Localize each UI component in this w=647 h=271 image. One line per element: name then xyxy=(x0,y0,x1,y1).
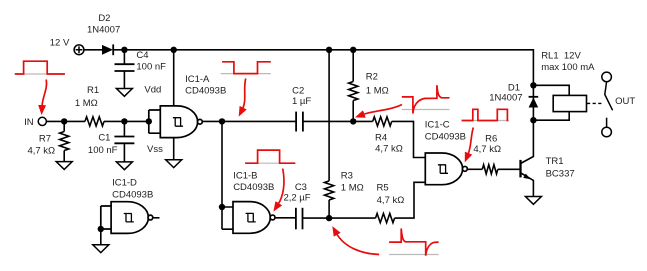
svg-text:1 MΩ: 1 MΩ xyxy=(75,98,98,109)
svg-text:1N4007: 1N4007 xyxy=(87,25,120,36)
resistor R5 xyxy=(376,214,395,223)
annotation arrow to node A xyxy=(363,105,402,115)
resistor R4 xyxy=(373,117,392,126)
svg-text:R7: R7 xyxy=(39,134,51,145)
switch contact top xyxy=(602,72,612,82)
svg-text:C4: C4 xyxy=(136,50,148,61)
ground (R7) xyxy=(56,162,72,170)
NAND gate IC1-C CD4093B xyxy=(425,153,467,185)
svg-text:4,7 kΩ: 4,7 kΩ xyxy=(473,144,501,155)
capacitor C2 xyxy=(296,112,303,132)
wire R4 to IC1-C top input xyxy=(392,121,426,157)
wire +12V top rail xyxy=(113,50,533,97)
ground (IC1-D) xyxy=(93,245,109,253)
capacitor C3 xyxy=(296,208,303,230)
node A junction (C2/R2/R4) xyxy=(350,118,356,124)
transistor TR1 BC337 xyxy=(521,120,534,196)
waveform annotation: node A differentiated xyxy=(402,85,450,113)
svg-text:Vss: Vss xyxy=(147,144,163,155)
svg-text:1 MΩ: 1 MΩ xyxy=(366,86,389,97)
svg-text:12 V: 12 V xyxy=(50,37,70,48)
svg-text:D2: D2 xyxy=(98,13,110,24)
wire R3 rail drop xyxy=(328,50,330,181)
wire C2 to node A xyxy=(303,120,353,122)
resistor R1 xyxy=(85,117,104,126)
wire C3 to node B xyxy=(303,217,330,219)
resistor R3 xyxy=(325,181,334,200)
node B junction (C3/R3/R5) xyxy=(326,215,332,221)
switch blade xyxy=(605,82,613,111)
resistor R2 xyxy=(349,50,358,122)
ground (C1) xyxy=(116,162,132,170)
wire V+ to D2 anode xyxy=(84,49,102,51)
annotation arrow to node B xyxy=(337,234,380,255)
capacitor C1 xyxy=(114,121,134,161)
relay RL1 coil xyxy=(533,85,586,120)
svg-text:CD4093B: CD4093B xyxy=(185,86,226,97)
diode D2 xyxy=(102,44,113,55)
svg-text:2,2 µF: 2,2 µF xyxy=(283,193,310,204)
waveform annotation: IC1-A output inverted pulse xyxy=(221,62,271,74)
capacitor C4 xyxy=(115,50,135,89)
svg-text:C3: C3 xyxy=(295,182,307,193)
resistor R6 xyxy=(482,165,497,174)
junction rail-R3 xyxy=(326,47,332,53)
NAND gate IC1-B CD4093B xyxy=(233,202,275,234)
svg-text:C1: C1 xyxy=(98,133,110,144)
annotation arrow to IC1-B output xyxy=(278,169,284,205)
junction rail-Vdd xyxy=(171,47,177,53)
node IN terminal xyxy=(38,117,46,125)
waveform annotation: node B spikes xyxy=(389,229,439,256)
waveform annotation: input pulse (IN) xyxy=(15,61,65,74)
junction IC1-D inputs to ground xyxy=(98,226,104,232)
svg-text:BC337: BC337 xyxy=(546,169,575,180)
annotation arrow to IN xyxy=(42,80,47,107)
wire IN to R1 xyxy=(46,120,85,122)
wire node B to R5 xyxy=(329,217,375,219)
svg-text:R3: R3 xyxy=(341,171,353,182)
wire relay branch vertical xyxy=(532,97,534,120)
junction IC1-A out node xyxy=(219,118,225,124)
wire IC1-A Vss to ground xyxy=(173,138,175,160)
svg-text:CD4093B: CD4093B xyxy=(233,182,274,193)
wire IC1-C output to R6 xyxy=(467,168,482,170)
NAND gate IC1-D CD4093B spare xyxy=(101,202,160,234)
junction IC1-B input xyxy=(219,204,225,210)
wire IC1-B output to C3 xyxy=(275,217,296,219)
svg-text:R1: R1 xyxy=(87,85,99,96)
svg-text:CD4093B: CD4093B xyxy=(112,190,153,201)
junction rail-C4 xyxy=(121,47,127,53)
annotation arrow to IC1-A output xyxy=(243,79,246,110)
svg-text:4,7 kΩ: 4,7 kΩ xyxy=(27,146,55,157)
junction D1 bottom / collector xyxy=(530,117,536,123)
svg-text:CD4093B: CD4093B xyxy=(425,132,466,143)
junction IN-R7 xyxy=(61,118,67,124)
ground (C4) xyxy=(116,89,132,97)
svg-text:R4: R4 xyxy=(375,132,387,143)
svg-text:1N4007: 1N4007 xyxy=(489,93,522,104)
svg-text:100 nF: 100 nF xyxy=(136,62,166,73)
switch bottom stub xyxy=(606,118,608,128)
wire Vdd to IC1-A xyxy=(173,50,175,106)
svg-text:100 nF: 100 nF xyxy=(88,145,118,156)
dashed actuation link xyxy=(587,102,602,104)
wire R1 to IC1-A input xyxy=(104,120,149,122)
wire IC1-A node down to IC1-B input xyxy=(222,121,233,229)
junction R1-C1 xyxy=(121,118,127,124)
wire R6 to TR1 base xyxy=(498,168,521,170)
svg-text:IC1-C: IC1-C xyxy=(425,119,450,130)
svg-text:4,7 kΩ: 4,7 kΩ xyxy=(375,144,403,155)
junction input IC1-A xyxy=(146,118,152,124)
wire node A to R4 xyxy=(353,120,373,122)
svg-text:RL1 12V: RL1 12V xyxy=(541,50,581,61)
wire R3 to node B xyxy=(328,200,330,218)
svg-text:1 µF: 1 µF xyxy=(292,96,311,107)
junction D1 top / relay xyxy=(530,82,536,88)
wire IC1-D to ground xyxy=(100,229,102,245)
svg-text:TR1: TR1 xyxy=(546,156,564,167)
wire R5 to IC1-C bottom input xyxy=(395,182,426,218)
svg-text:1 MΩ: 1 MΩ xyxy=(341,183,364,194)
resistor R7 xyxy=(60,121,69,161)
svg-text:C2: C2 xyxy=(292,85,304,96)
svg-text:IC1-D: IC1-D xyxy=(112,177,137,188)
power source V+ 12V xyxy=(74,45,84,55)
junction rail-R2 xyxy=(350,47,356,53)
svg-text:R5: R5 xyxy=(377,183,389,194)
waveform annotation: IC1-B output pulse xyxy=(245,150,295,163)
svg-text:R6: R6 xyxy=(485,133,497,144)
svg-text:4,7 kΩ: 4,7 kΩ xyxy=(377,195,405,206)
wire IC1-A output to C2 xyxy=(202,120,296,122)
svg-text:Vdd: Vdd xyxy=(144,85,161,96)
svg-text:OUT: OUT xyxy=(615,96,635,107)
svg-text:IC1-A: IC1-A xyxy=(185,74,210,85)
diode D1 flyback xyxy=(529,97,539,108)
svg-text:R2: R2 xyxy=(366,72,378,83)
svg-text:IC1-B: IC1-B xyxy=(233,171,257,182)
annotation arrow to IC1-C output xyxy=(468,128,473,155)
svg-text:max 100 mA: max 100 mA xyxy=(541,62,595,73)
waveform annotation: IC1-C output pulse train xyxy=(462,109,509,120)
ground (TR1 emitter) xyxy=(525,197,541,205)
ground (IC1-A Vss) xyxy=(166,160,182,168)
switch contact bottom xyxy=(602,127,612,137)
op-amp? no: NAND gate IC1-A CD4093B xyxy=(149,106,203,138)
svg-text:IN: IN xyxy=(24,117,34,128)
